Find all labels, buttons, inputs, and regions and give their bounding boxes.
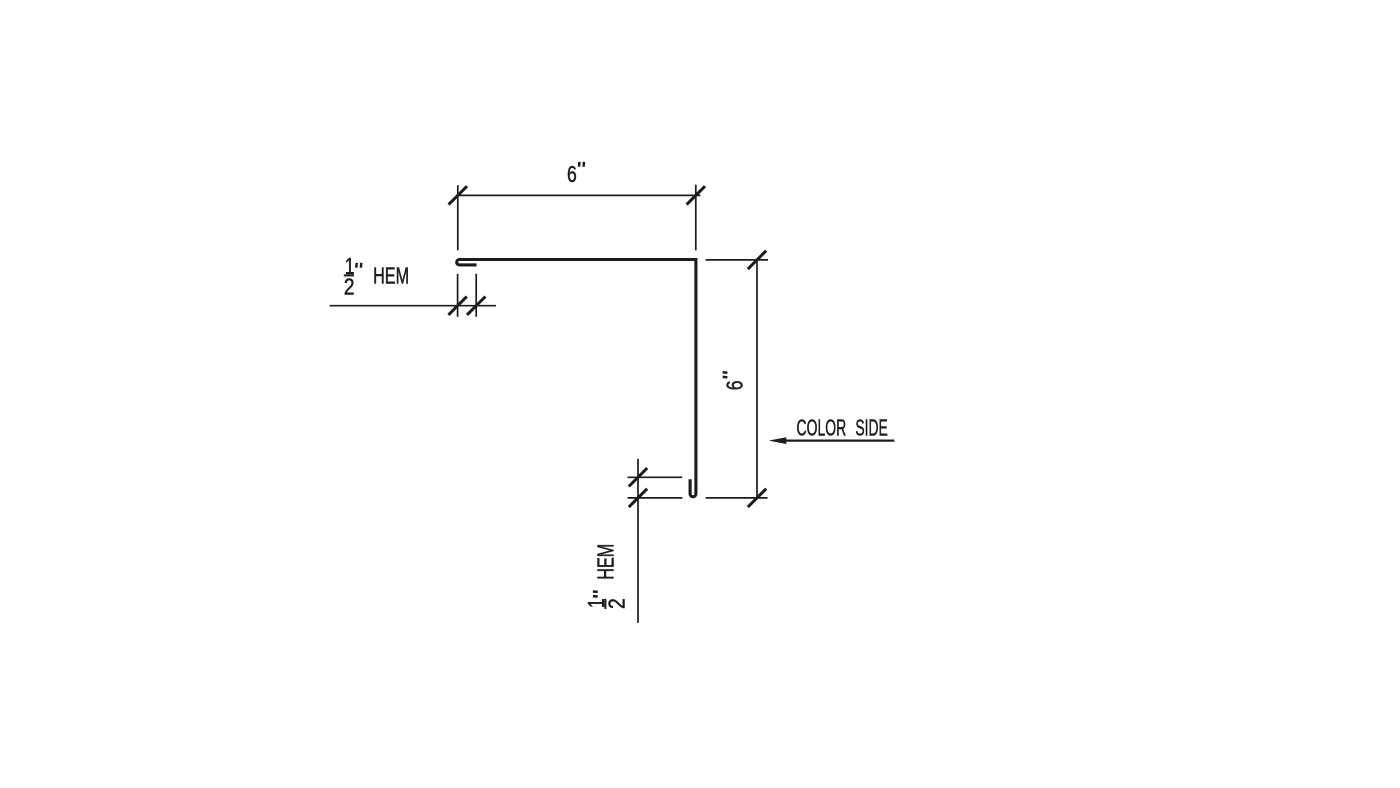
flashing profile outline with top-left hem and bottom hem	[457, 260, 696, 497]
top 6-inch dimension line	[458, 194, 701, 196]
right dimension text 6" (rotated)	[721, 372, 747, 390]
top dimension tick left	[449, 186, 467, 204]
left half-inch hem dimension: right extension line	[475, 274, 477, 317]
top dimension text 6"	[567, 161, 584, 187]
left half-inch hem dimension/leader line	[330, 305, 496, 307]
top dimension tick right	[687, 186, 705, 204]
svg-text:COLOR: COLOR	[797, 415, 847, 441]
left half-inch hem dimension: left extension line	[457, 274, 459, 317]
top 6-inch dimension: right extension line	[695, 185, 697, 251]
left label 1/2" HEM	[344, 253, 409, 299]
COLOR SIDE leader line	[783, 440, 894, 442]
right dimension tick top	[748, 251, 766, 269]
bottom half-inch hem dimension: bottom extension line	[628, 497, 683, 499]
svg-text:6: 6	[721, 381, 747, 391]
svg-text:6: 6	[567, 161, 577, 187]
bottom hem tick 2	[629, 489, 647, 507]
svg-text:SIDE: SIDE	[855, 415, 887, 441]
bottom label 1/2" HEM (rotated)	[583, 544, 629, 609]
bottom hem tick 1	[629, 468, 647, 486]
left hem tick 1	[448, 297, 466, 315]
left hem tick 2	[467, 297, 485, 315]
top 6-inch dimension: left extension line	[457, 185, 459, 250]
right 6-inch dimension: top extension line	[706, 259, 768, 261]
bottom half-inch hem dimension/leader line	[637, 459, 639, 623]
right 6-inch dimension line	[756, 260, 758, 498]
right dimension tick bottom	[748, 489, 766, 507]
right 6-inch dimension: bottom extension line	[706, 497, 768, 499]
bottom half-inch hem dimension: top extension line	[628, 476, 683, 478]
COLOR SIDE arrowhead	[769, 437, 787, 444]
